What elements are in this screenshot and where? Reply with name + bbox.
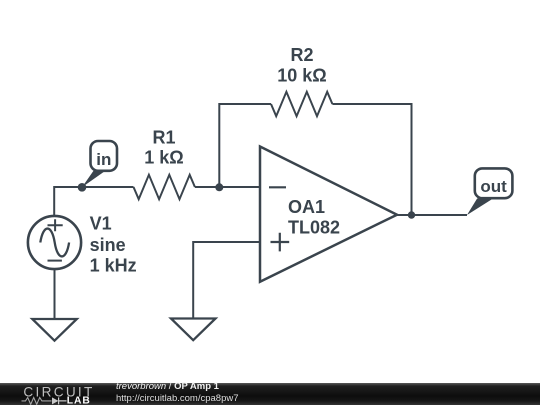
svg-text:R2: R2 (290, 45, 313, 65)
svg-text:10 kΩ: 10 kΩ (277, 65, 326, 85)
node in junction dot (78, 183, 87, 192)
flag in (82, 141, 117, 187)
resistor R2 (271, 45, 332, 116)
flag out (467, 168, 512, 215)
svg-text:1 kHz: 1 kHz (90, 255, 137, 275)
svg-text:sine: sine (90, 235, 126, 255)
svg-text:V1: V1 (90, 214, 112, 234)
svg-text:out: out (480, 177, 507, 196)
wire V1 bottom to ground (54, 269, 56, 319)
svg-text:TL082: TL082 (288, 217, 340, 237)
wire op-amp non-inverting input to ground (193, 242, 260, 319)
wire feedback left riser (219, 104, 271, 187)
node output junction dot (408, 211, 415, 218)
credit text (115, 380, 117, 382)
CircuitLab logo (0, 383, 110, 405)
voltage source V1 sine 1 kHz (28, 214, 137, 276)
op-amp OA1 TL082 (260, 147, 397, 282)
footer bar (0, 383, 540, 405)
wire op-amp output (397, 214, 467, 216)
svg-text:R1: R1 (152, 128, 175, 148)
svg-text:1 kΩ: 1 kΩ (144, 148, 183, 168)
svg-text:OA1: OA1 (288, 197, 325, 217)
svg-text:in: in (96, 150, 111, 169)
wire input node to R1 (81, 186, 134, 188)
wire R1 to op-amp inverting input (195, 186, 260, 188)
wire from V1 top to input node (54, 187, 81, 215)
wire feedback right riser to output node (332, 104, 411, 215)
resistor R1 (134, 128, 195, 200)
svg-text:LAB: LAB (67, 396, 91, 405)
node feedback junction dot (215, 183, 223, 191)
ground at non-inverting input (171, 319, 216, 341)
ground under V1 (32, 319, 77, 341)
